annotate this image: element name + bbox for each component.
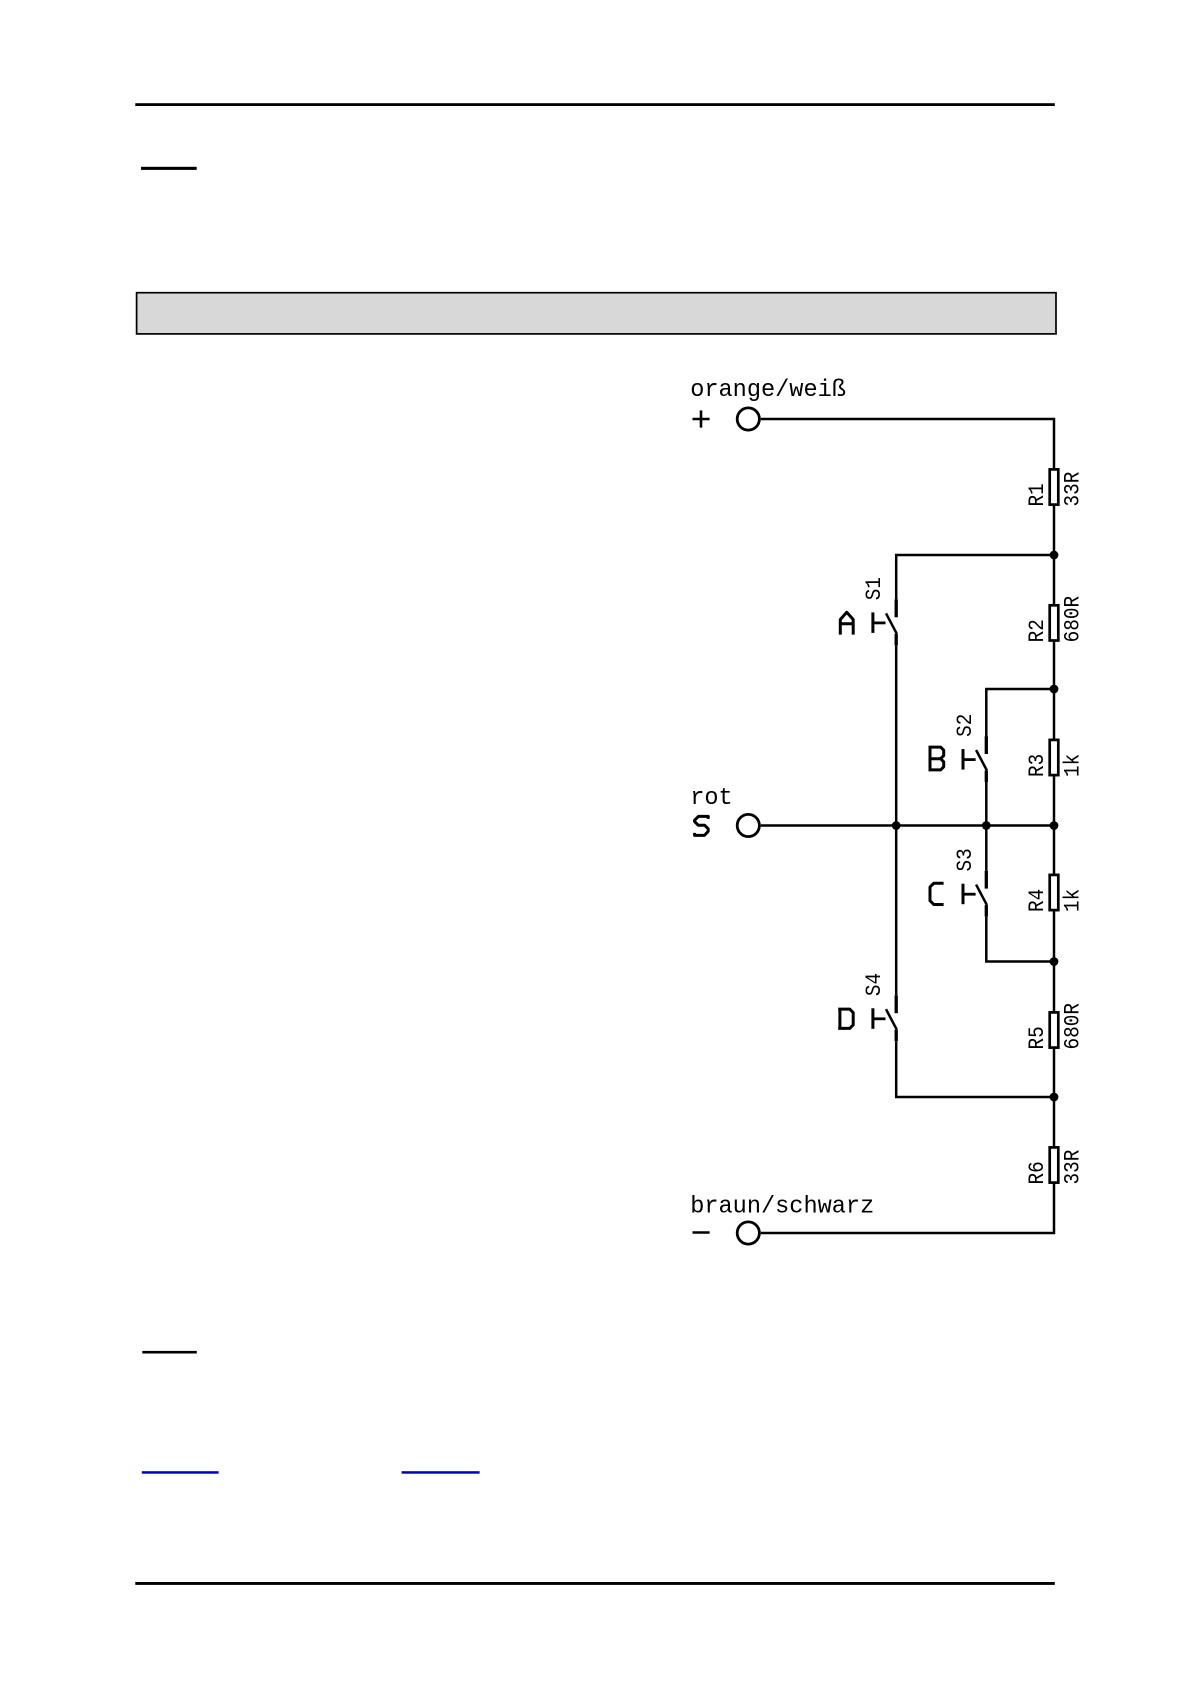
svg-text:orange/weiß: orange/weiß [690,377,846,404]
switch S2 [963,736,987,782]
resistor R4 [1050,875,1059,910]
minus polarity symbol [693,1231,710,1234]
terminal label S [695,816,709,835]
svg-text:rot: rot [690,785,732,812]
junction S rail [1050,821,1059,830]
resistor R2 [1050,605,1059,640]
svg-text:680R: 680R [1061,1003,1085,1049]
wire S3 to node3 [986,917,1054,962]
wire rail R6 to minus pad [761,1183,1054,1233]
junction node1 [1050,551,1059,560]
junction S branch A/D [892,821,901,830]
wire rail node1 to R2 [1053,555,1056,605]
bottom horizontal rule [135,1582,1055,1585]
resistor R6 [1050,1147,1059,1182]
svg-text:braun/schwarz: braun/schwarz [690,1194,874,1221]
svg-text:33R: 33R [1061,472,1085,507]
wire node2 tap to switch branch [986,689,1054,736]
resistor R5 [1050,1012,1059,1047]
wire from + pad to right rail and down to R1 [761,419,1054,469]
svg-text:R4: R4 [1026,889,1050,912]
switch S3 [963,871,987,917]
key cap label D [838,1008,853,1030]
svg-text:S2: S2 [954,714,978,737]
wire rail R4 to node3 [1053,910,1056,962]
hyperlink underline 2 [402,1471,480,1474]
terminal pad + [737,408,759,430]
wire S1 to S-node wire [895,645,898,825]
svg-text:1k: 1k [1061,754,1085,777]
junction S branch B/C [982,821,991,830]
wire S4 to node4 [896,1041,1054,1097]
wire rail node2 to R3 [1053,689,1056,740]
svg-text:R3: R3 [1026,754,1050,777]
junction node3 [1050,957,1059,966]
key cap label C [930,883,944,904]
wire S pad to rail [761,824,1054,827]
top horizontal rule [135,103,1055,106]
key cap label A [840,612,853,634]
svg-text:33R: 33R [1061,1150,1085,1185]
switch S1 [873,599,897,645]
svg-text:S1: S1 [863,577,887,600]
svg-text:R6: R6 [1026,1161,1050,1184]
wire rail R5 to node4 [1053,1048,1056,1097]
wire rail R2 to node2 [1053,640,1056,689]
heading underline stub [141,167,197,170]
junction node4 [1050,1093,1059,1102]
switch S4 [873,995,897,1041]
resistor R1 [1050,469,1059,504]
svg-text:1k: 1k [1061,889,1085,912]
plus polarity symbol [693,410,710,427]
wire rail node3 to R5 [1053,962,1056,1013]
terminal pad - [737,1222,759,1244]
wire rail R1 to node1 [1053,505,1056,555]
svg-text:680R: 680R [1061,596,1085,642]
wire rail R3 to S node [1053,775,1056,826]
wire node1 tap to switch branch [896,555,1054,599]
reference underline stub (bottom text) [142,1351,197,1354]
terminal pad S [737,814,759,836]
wire S2 to S-node wire [985,782,988,826]
resistor R3 [1050,740,1059,775]
svg-text:S4: S4 [863,973,887,996]
wire rail S node to R4 [1053,826,1056,875]
svg-text:S3: S3 [954,848,978,871]
key cap label B [929,746,944,772]
svg-text:R2: R2 [1026,619,1050,642]
hyperlink underline 1 [142,1471,219,1474]
wire S-node to switch S4 [895,826,898,996]
junction node2 [1050,685,1059,694]
wire S-node to switch S3 [985,826,988,871]
svg-text:R1: R1 [1026,483,1050,506]
svg-text:R5: R5 [1026,1026,1050,1049]
grey section banner [137,293,1056,334]
wire rail node4 to R6 [1053,1097,1056,1146]
